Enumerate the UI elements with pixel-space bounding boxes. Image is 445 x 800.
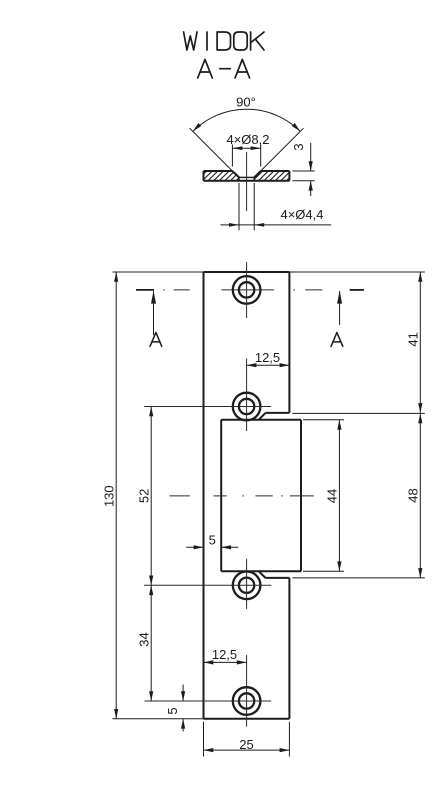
svg-text:12,5: 12,5	[255, 350, 280, 365]
svg-text:130: 130	[101, 485, 116, 507]
svg-text:34: 34	[136, 632, 151, 646]
svg-text:52: 52	[136, 489, 151, 503]
svg-text:5: 5	[165, 707, 180, 714]
svg-text:5: 5	[209, 532, 216, 547]
svg-text:3: 3	[291, 143, 306, 150]
svg-text:4×Ø4,4: 4×Ø4,4	[280, 207, 323, 222]
svg-text:90°: 90°	[236, 95, 256, 110]
svg-text:48: 48	[406, 488, 421, 502]
svg-text:12,5: 12,5	[212, 647, 237, 662]
svg-text:4×Ø8,2: 4×Ø8,2	[226, 132, 269, 147]
svg-text:44: 44	[325, 489, 340, 503]
svg-text:25: 25	[239, 737, 253, 752]
svg-text:41: 41	[406, 332, 421, 346]
